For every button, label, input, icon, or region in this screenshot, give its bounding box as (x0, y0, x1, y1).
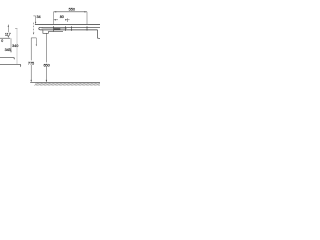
dimension 775 line (30, 38, 32, 61)
extension line left of 550 (53, 12, 55, 24)
dimension 550 line (54, 11, 87, 13)
basin inner cap line (41, 27, 43, 29)
floor line (30, 81, 100, 83)
dimension 34 bracket tick (33, 15, 35, 17)
centerline dashed (33, 23, 35, 32)
datum right corner arrow (35, 38, 37, 46)
drain step outline (43, 30, 63, 33)
dimension 650 line (45, 33, 47, 62)
floor hatching (35, 83, 103, 86)
extension line right of 550 (86, 12, 88, 24)
wall bracket line 1 (0, 57, 14, 59)
hole cross 1 (53, 26, 55, 31)
wall bracket line 1 corner arrow (13, 58, 15, 59)
dimension 775 floor arrow (31, 80, 32, 82)
hole cross 2 (64, 26, 66, 31)
wall bracket line 2 corner arrow (20, 64, 22, 66)
overflow slot (54, 28, 60, 29)
dimension 80 right arrow (66, 19, 70, 21)
dimension 117 lower arrow (8, 36, 9, 38)
svg-text:117: 117 (5, 32, 11, 36)
svg-text:80: 80 (60, 15, 64, 19)
dimension 80 left arrow (54, 19, 58, 21)
wall top line (35, 24, 100, 26)
svg-text:340: 340 (12, 44, 18, 48)
hole cross 3 (70, 26, 72, 31)
dimension 117 upper arrow (8, 25, 9, 27)
dimension 34 vertical with arrow (35, 16, 37, 22)
dimension 650 floor arrow (46, 80, 47, 82)
basin rim outline (39, 27, 101, 30)
dimension 550 arrowheads (54, 11, 87, 12)
svg-text:345: 345 (5, 48, 11, 52)
datum line H3 (31, 37, 36, 39)
basin mid line (43, 28, 67, 30)
svg-text:650: 650 (43, 62, 50, 67)
svg-text:34: 34 (37, 15, 41, 19)
wall bracket line 2 (0, 63, 21, 65)
svg-text:550: 550 (69, 6, 76, 11)
basin right underside (98, 30, 101, 39)
projection line vertical (16, 28, 18, 64)
extension line right of 80 (66, 18, 68, 22)
dimension 340 vertical (10, 38, 12, 51)
svg-text:775: 775 (28, 61, 34, 66)
projection line top tick (15, 27, 17, 29)
hole cross 4 (86, 26, 88, 30)
svg-text:0: 0 (1, 39, 3, 43)
left shelf line (0, 37, 10, 39)
